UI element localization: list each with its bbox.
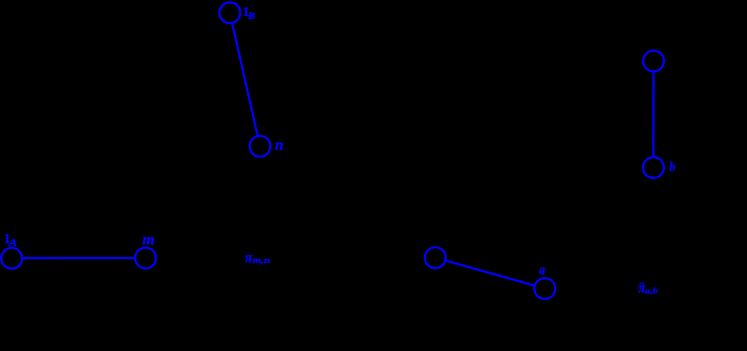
svg-text:B: B xyxy=(247,12,255,22)
svg-text:a,b: a,b xyxy=(645,286,657,296)
node 1B xyxy=(219,2,240,23)
wire edge 1A-m xyxy=(23,257,134,259)
svg-text:b: b xyxy=(669,160,675,175)
label pi-tilde_ab xyxy=(638,279,657,297)
wire edge c-a xyxy=(446,261,534,286)
node top-right xyxy=(643,51,664,72)
node n xyxy=(250,136,271,157)
label pi_mn xyxy=(245,250,270,267)
node a xyxy=(534,278,555,299)
node 1A xyxy=(1,248,22,269)
node c-left xyxy=(425,247,446,268)
svg-text:m: m xyxy=(142,231,154,248)
node m xyxy=(135,248,156,269)
label 1A xyxy=(4,231,18,249)
node b xyxy=(643,157,664,178)
svg-text:A: A xyxy=(8,237,18,249)
svg-text:a: a xyxy=(539,262,545,278)
svg-text:m,n: m,n xyxy=(253,255,271,265)
label 1B xyxy=(243,4,255,22)
svg-text:n: n xyxy=(275,137,284,154)
wire edge 1B-n xyxy=(232,24,257,135)
wire edge top-b xyxy=(652,72,654,156)
